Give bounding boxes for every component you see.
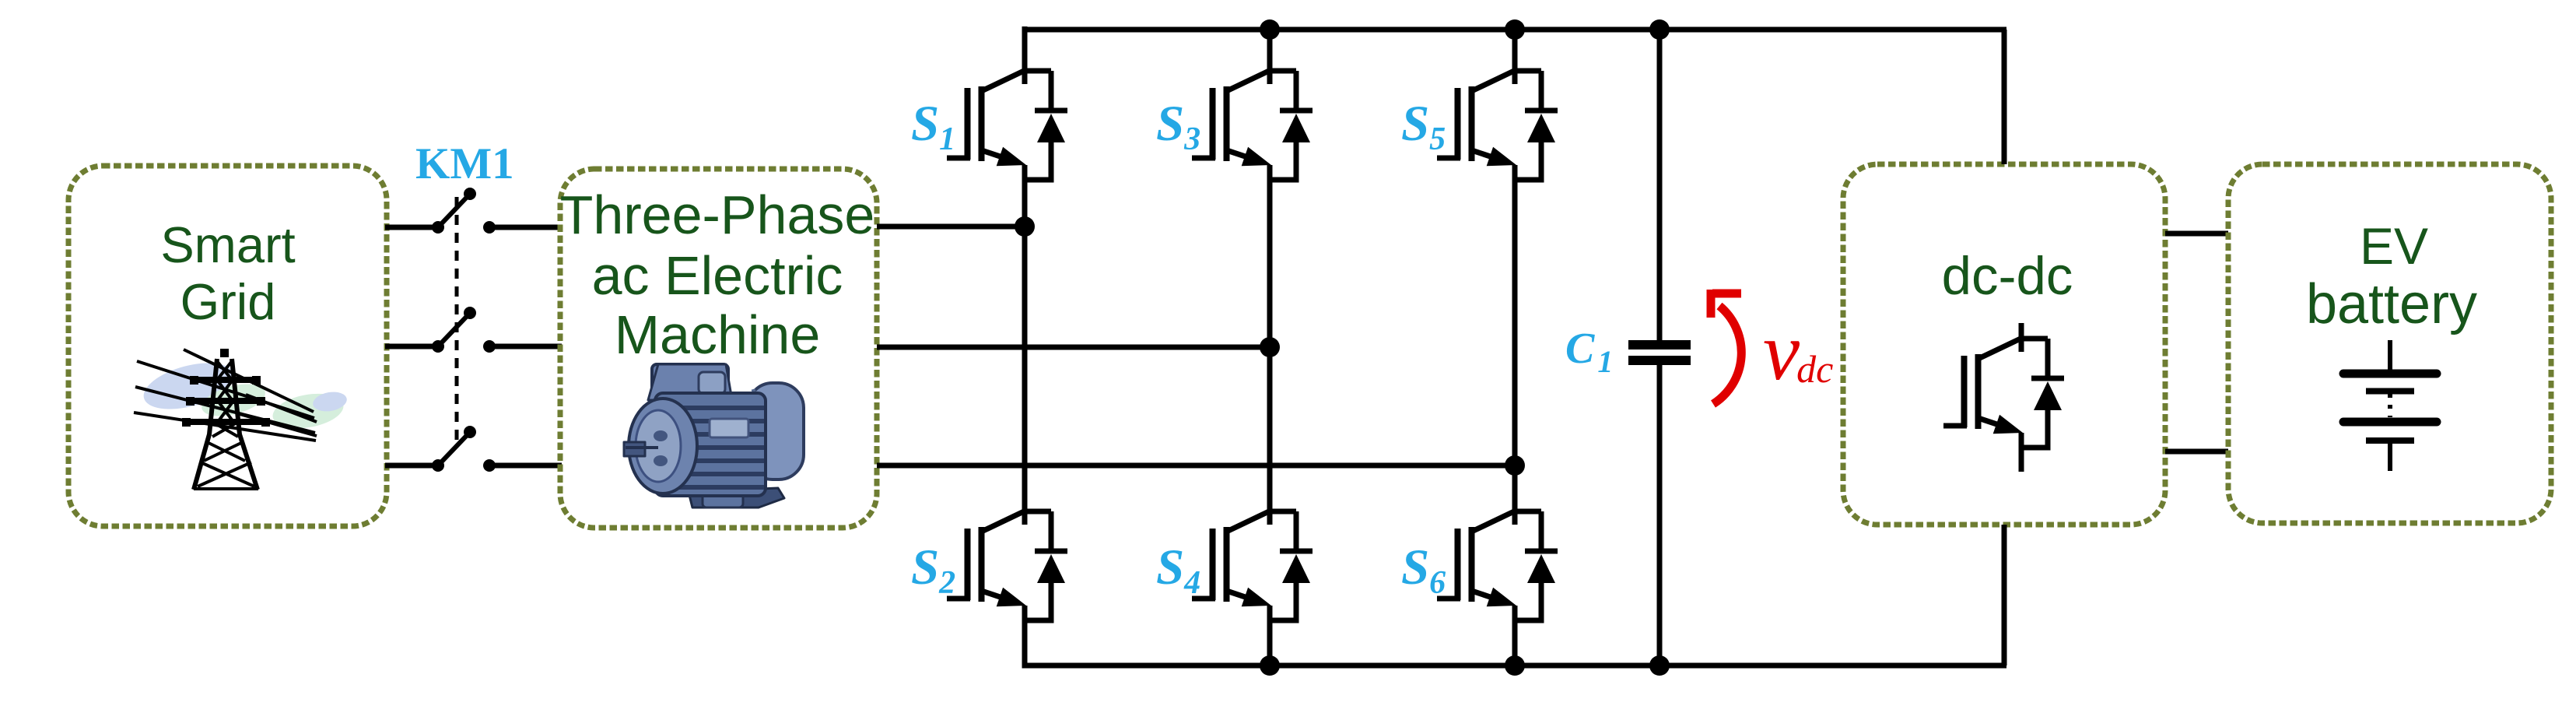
node phase A junction xyxy=(1015,216,1035,237)
smart grid label xyxy=(160,216,295,330)
dc-dc to battery upper wire xyxy=(2165,231,2228,237)
EV battery box xyxy=(2228,164,2551,523)
svg-text:KM1: KM1 xyxy=(415,139,514,188)
top rail junction leg 2 xyxy=(1260,19,1280,40)
phase B wire xyxy=(877,345,1272,350)
node phase C junction xyxy=(1505,455,1525,476)
dc bus positive rail xyxy=(1022,27,2007,33)
svg-text:Three-Phase: Three-Phase xyxy=(560,184,875,245)
bottom rail junction leg 3 xyxy=(1505,655,1525,676)
dc-dc top feed wire xyxy=(2002,30,2007,164)
contactor pole 1 wire right xyxy=(489,225,562,230)
contactor pole 3 wire right xyxy=(489,463,562,469)
svg-text:battery: battery xyxy=(2306,273,2477,335)
contactor pole 2 wire right xyxy=(489,344,562,349)
dc bus negative rail xyxy=(1022,663,2007,669)
leg 1 collector wire xyxy=(1022,26,1028,84)
electric motor icon xyxy=(624,364,804,508)
contactor linkage dashed line xyxy=(455,197,459,441)
svg-text:Smart: Smart xyxy=(160,216,295,273)
leg 2 emitter wire xyxy=(1267,606,1273,668)
vdc arrow arc xyxy=(1711,290,1741,404)
bottom rail junction leg 2 xyxy=(1260,655,1280,676)
IGBT S2 xyxy=(947,509,1067,623)
capacitor C1 top wire xyxy=(1657,26,1663,342)
svg-text:Grid: Grid xyxy=(180,273,276,330)
phase A wire xyxy=(877,224,1027,230)
leg 3 emitter wire xyxy=(1512,606,1518,668)
battery symbol xyxy=(2343,340,2437,471)
three-phase machine box xyxy=(560,169,877,528)
capacitor C1 bottom wire xyxy=(1657,363,1663,668)
leg 2 midpoint wire xyxy=(1267,165,1273,525)
svg-text:EV: EV xyxy=(2360,217,2428,275)
contactor pole 2 blade xyxy=(432,307,496,353)
phase C wire xyxy=(877,463,1517,469)
IGBT S6 xyxy=(1437,509,1558,623)
EV battery label xyxy=(2306,217,2477,335)
dc-dc to battery lower wire xyxy=(2165,449,2228,455)
capacitor C1 plates xyxy=(1628,340,1691,365)
contactor KM1 switch pole 1 wire left xyxy=(385,225,438,230)
dc-dc IGBT icon xyxy=(1943,323,2064,472)
IGBT S4 xyxy=(1192,509,1313,623)
svg-text:dc-dc: dc-dc xyxy=(1942,246,2073,306)
node phase B junction xyxy=(1260,337,1280,357)
leg 2 collector wire xyxy=(1267,26,1273,84)
top rail junction capacitor xyxy=(1649,19,1670,40)
svg-text:ac Electric: ac Electric xyxy=(592,245,843,306)
leg 1 emitter wire xyxy=(1022,606,1028,668)
IGBT S3 xyxy=(1192,68,1313,183)
contactor KM1 switch pole 3 wire left xyxy=(385,463,438,469)
contactor KM1 switch pole 2 wire left xyxy=(385,344,438,349)
dc-dc bottom feed wire xyxy=(2002,525,2007,666)
three-phase machine label xyxy=(560,184,875,365)
IGBT S1 xyxy=(947,68,1067,183)
smart grid box xyxy=(68,166,387,526)
dc-dc converter box xyxy=(1843,164,2165,525)
contactor pole 3 blade xyxy=(432,426,496,472)
bottom rail junction capacitor xyxy=(1649,655,1670,676)
top rail junction leg 3 xyxy=(1505,19,1525,40)
leg 3 collector wire xyxy=(1512,26,1518,84)
IGBT S5 xyxy=(1437,68,1558,183)
leg 3 midpoint wire xyxy=(1512,165,1518,525)
svg-text:Machine: Machine xyxy=(615,304,821,365)
transmission tower icon xyxy=(134,349,349,490)
contactor pole 1 blade xyxy=(432,188,496,234)
leg 1 midpoint wire xyxy=(1022,165,1028,525)
